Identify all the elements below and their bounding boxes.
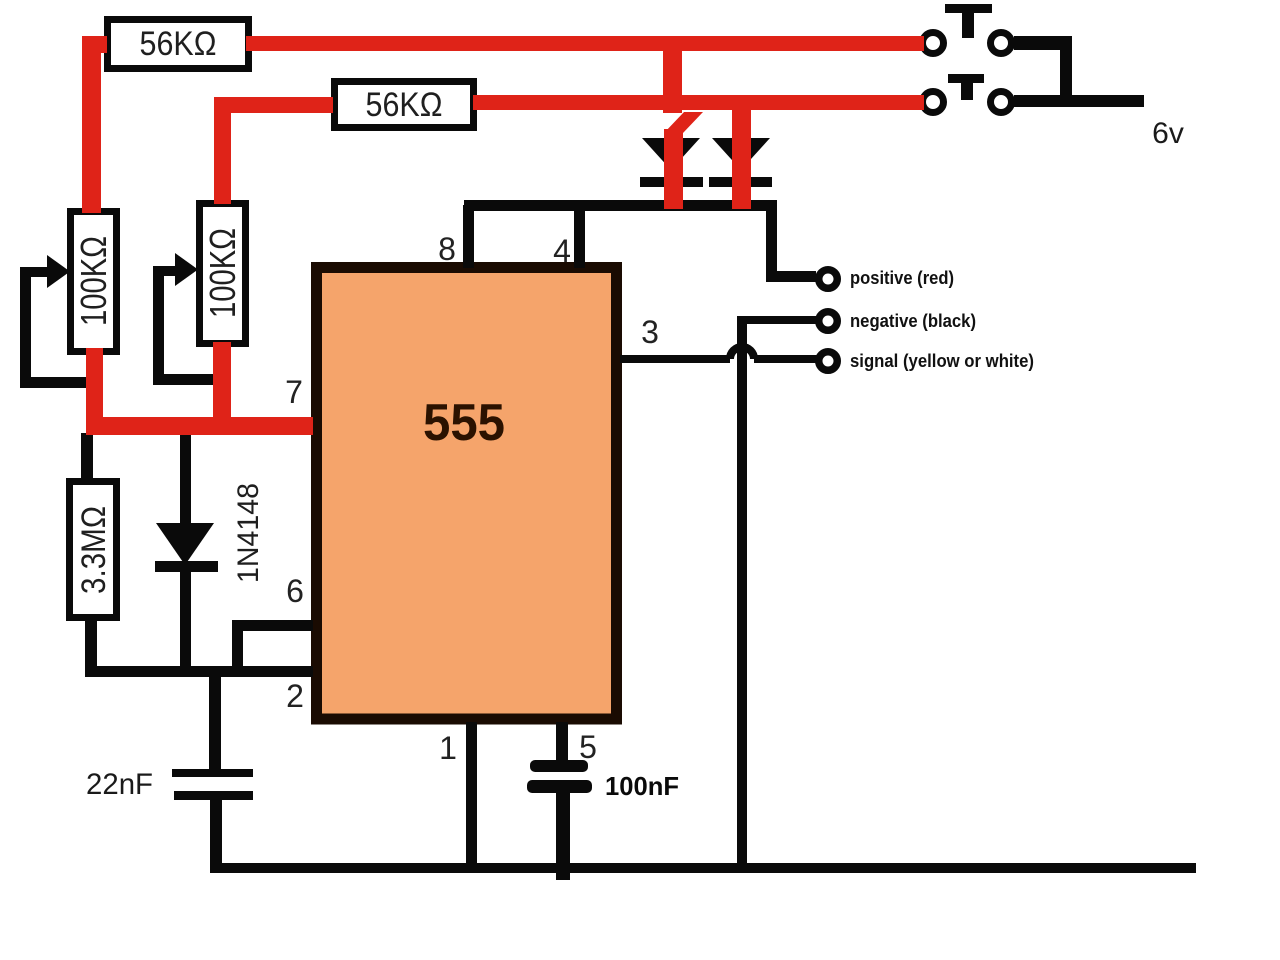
- connector signal: [819, 352, 838, 371]
- svg-text:2: 2: [286, 678, 304, 714]
- svg-text:56KΩ: 56KΩ: [366, 86, 443, 124]
- svg-text:100KΩ: 100KΩ: [73, 236, 114, 326]
- potentiometer VR2 wiper arrow: [153, 253, 218, 385]
- wire pins 2/6 node horizontal: [85, 666, 313, 677]
- wire pin 8 stub: [463, 205, 474, 268]
- wire red R1 left to VR1 top: [82, 36, 107, 213]
- potentiometer VR2 body 100K: [200, 204, 246, 344]
- wire pin 3 to signal connector: [754, 355, 817, 363]
- svg-text:56KΩ: 56KΩ: [140, 25, 217, 63]
- wire pin 5 to C2: [556, 722, 568, 762]
- diode D3 1N4148: [155, 523, 218, 677]
- wire red drop W2 to LED D2: [732, 105, 751, 209]
- svg-text:positive (red): positive (red): [850, 268, 954, 288]
- pushbutton SW2 actuator T: [948, 74, 984, 100]
- potentiometer VR1 wiper arrow: [20, 255, 90, 388]
- pushbutton SW2 contacts: [923, 92, 1012, 113]
- resistor R2 body 56K: [335, 82, 474, 128]
- wire red R2 left to VR2 top: [214, 97, 333, 204]
- wire D3 top lead: [180, 433, 191, 525]
- wire drop to positive connector: [766, 200, 816, 282]
- LED D2: [709, 138, 772, 187]
- svg-text:5: 5: [579, 729, 597, 765]
- wire R3 bottom lead: [85, 618, 97, 677]
- resistor R1 body 56K: [108, 20, 249, 69]
- svg-text:22nF: 22nF: [86, 768, 153, 801]
- svg-text:100nF: 100nF: [605, 771, 679, 801]
- wire negative connector to ground: [737, 316, 816, 864]
- wire pin 6 step: [232, 620, 313, 677]
- wire red VR1 bottom: [86, 348, 103, 434]
- wire red bus to pin 7: [86, 417, 313, 435]
- ground rail: [210, 863, 1196, 873]
- wire red W2 R2 to SW2: [473, 95, 924, 110]
- svg-text:7: 7: [285, 374, 303, 410]
- pushbutton SW1 contacts: [923, 33, 1012, 54]
- wire pin 1 to ground: [466, 722, 477, 866]
- wire R3 top lead: [81, 433, 93, 479]
- capacitor C2 100nF: [527, 760, 592, 880]
- svg-text:8: 8: [438, 231, 456, 267]
- wire red VR2 bottom: [213, 342, 231, 434]
- svg-text:100KΩ: 100KΩ: [202, 228, 243, 318]
- LED D1: [640, 138, 703, 187]
- connector negative: [819, 312, 838, 331]
- wire pin 3 output: [620, 355, 730, 363]
- potentiometer VR1 body 100K: [71, 212, 117, 352]
- pushbutton SW1 actuator T: [945, 4, 992, 38]
- svg-text:negative (black): negative (black): [850, 311, 976, 331]
- wire red drop W1 to LED D1: [663, 44, 703, 209]
- wire hop over negative wire: [730, 347, 754, 359]
- svg-text:signal (yellow or white): signal (yellow or white): [850, 351, 1034, 371]
- op-amp U1 555 IC body: [317, 268, 617, 720]
- svg-text:1N4148: 1N4148: [232, 483, 265, 583]
- svg-text:1: 1: [439, 730, 457, 766]
- svg-text:4: 4: [553, 233, 571, 269]
- wire node to capacitor C1: [209, 677, 221, 770]
- svg-text:555: 555: [423, 394, 505, 452]
- capacitor C1 22nF: [172, 769, 253, 867]
- svg-text:6v: 6v: [1152, 117, 1184, 150]
- connector positive: [819, 270, 838, 289]
- svg-text:3: 3: [641, 314, 659, 350]
- svg-text:3.3MΩ: 3.3MΩ: [75, 506, 113, 594]
- wire SW2 to 6v: [1014, 95, 1144, 107]
- wire node V+ horizontal (pins 8,4 to positive): [464, 200, 777, 211]
- wire red W1 R1 to SW1: [246, 36, 924, 51]
- svg-text:6: 6: [286, 573, 304, 609]
- wire pin 4 stub: [574, 205, 585, 268]
- resistor R3 3.3M body: [70, 482, 117, 618]
- wire SW1 to 6v bus: [1014, 36, 1072, 103]
